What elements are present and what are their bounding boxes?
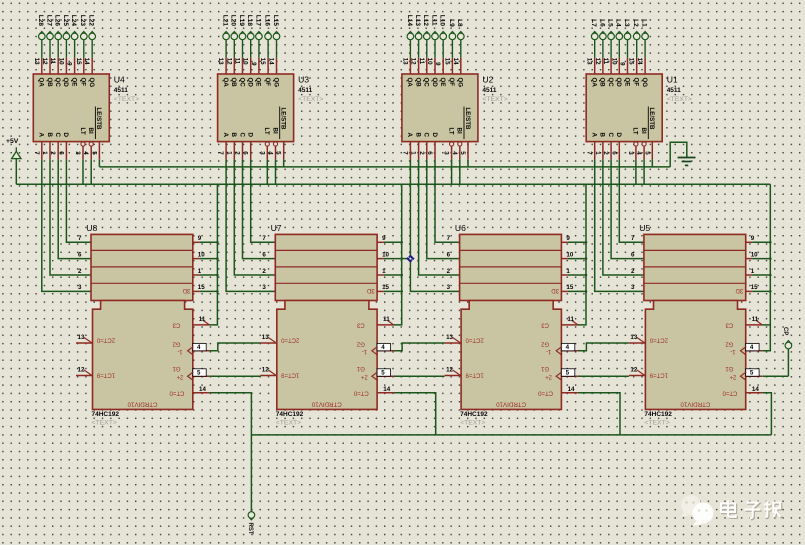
svg-text:5: 5	[643, 151, 650, 155]
svg-text:9: 9	[434, 62, 441, 66]
svg-text:CT=0: CT=0	[353, 389, 369, 395]
U6 pin 4 (DN)	[556, 343, 578, 355]
svg-text:1CT=9: 1CT=9	[649, 371, 668, 377]
svg-text:C3: C3	[172, 321, 180, 327]
svg-text:4511: 4511	[667, 87, 681, 94]
svg-text:CT=0: CT=0	[169, 389, 185, 395]
svg-text:14: 14	[568, 386, 575, 393]
U5 pin 5 (UP)	[741, 369, 763, 381]
U1 bottom pin stubs (A B C D LT BI LE, pins 7 1 2 6 3 4 5)	[586, 142, 653, 160]
svg-text:QD: QD	[615, 78, 622, 88]
U1 top pin stubs (QA..QG, pins 13 12 11 10 9 15 14)	[586, 58, 645, 74]
svg-text:3D: 3D	[182, 287, 190, 293]
U8 pin 12 (TCu input)	[76, 367, 93, 376]
wire U8 pin14 to reset rail	[209, 393, 251, 435]
svg-text:D: D	[431, 133, 438, 138]
U4 bottom pin stubs (A B C D LT BI LE, pins 7 1 2 6 3 4 5)	[33, 142, 100, 160]
wire U3.B to U7 pin2	[234, 159, 275, 275]
svg-text:6: 6	[631, 251, 635, 258]
svg-text:9: 9	[566, 235, 570, 242]
wire U4.B to U8 pin2	[50, 159, 91, 275]
svg-text:15: 15	[751, 284, 758, 291]
svg-text:L18: L18	[246, 15, 253, 27]
svg-text:12: 12	[446, 367, 453, 374]
wire U4.LT to +5V rail	[82, 159, 84, 184]
svg-text:11: 11	[49, 58, 56, 65]
svg-text:L4: L4	[615, 19, 622, 27]
svg-text:2+: 2+	[729, 373, 736, 379]
svg-text:BI: BI	[271, 128, 278, 134]
svg-text:QD: QD	[247, 78, 254, 88]
svg-text:3: 3	[447, 284, 451, 291]
svg-text:QB: QB	[46, 78, 53, 88]
U5 pin 13 (TCd input)	[629, 334, 646, 343]
U2 input terminals with net labels	[406, 15, 464, 58]
wire U1.LE to LE rail	[651, 159, 653, 167]
svg-text:1-: 1-	[177, 348, 182, 354]
svg-text:BI: BI	[456, 128, 463, 134]
svg-text:11: 11	[418, 58, 425, 65]
svg-text:QC: QC	[238, 78, 245, 88]
svg-text:L22: L22	[88, 15, 95, 27]
svg-text:L6: L6	[598, 19, 605, 27]
U6 pin 14 (MR)	[561, 386, 578, 393]
svg-text:1: 1	[410, 151, 417, 155]
U6 pin 12 (TCu input)	[445, 367, 462, 376]
svg-text:QG: QG	[272, 78, 279, 88]
svg-text:74HC192: 74HC192	[644, 411, 672, 418]
wire U1.D to U5 pin7	[619, 159, 644, 242]
U8 pin 5 (UP)	[188, 369, 210, 381]
svg-text:QG: QG	[457, 78, 464, 88]
svg-text:L2: L2	[632, 19, 639, 27]
svg-text:10: 10	[242, 58, 249, 65]
wire U1.B to U5 pin2	[603, 159, 644, 275]
svg-text:3: 3	[631, 284, 635, 291]
svg-text:QG: QG	[641, 78, 648, 88]
svg-text:2: 2	[78, 268, 82, 275]
svg-text:LE/STB: LE/STB	[464, 108, 471, 131]
svg-text:3D: 3D	[551, 287, 559, 293]
svg-text:14: 14	[268, 58, 275, 65]
svg-text:2CT=0: 2CT=0	[649, 336, 668, 342]
svg-text:3: 3	[74, 151, 81, 155]
svg-text:QB: QB	[599, 78, 606, 88]
svg-text:1: 1	[566, 268, 570, 275]
wire U6 pin5 to U5 pin12	[578, 375, 629, 377]
svg-text:12: 12	[225, 58, 232, 65]
U6 right pins 9 10 1 15 wired to preset riser	[561, 235, 587, 293]
svg-text:LE/STB: LE/STB	[648, 108, 655, 131]
svg-text:A: A	[38, 133, 45, 138]
svg-text:CTRDIV10: CTRDIV10	[680, 400, 710, 407]
svg-text:QE: QE	[70, 78, 77, 87]
svg-text:QC: QC	[54, 78, 61, 88]
svg-text:9: 9	[382, 235, 386, 242]
U3 input terminals with net labels	[222, 15, 280, 58]
U7 pin 12 (TCu input)	[260, 367, 277, 376]
svg-text:B: B	[599, 133, 606, 138]
svg-text:CTRDIV10: CTRDIV10	[127, 400, 157, 407]
svg-text:1: 1	[751, 268, 755, 275]
svg-text:C3: C3	[541, 321, 549, 327]
svg-text:3: 3	[443, 151, 450, 155]
svg-text:6: 6	[426, 151, 433, 155]
svg-text:<TEXT>: <TEXT>	[298, 96, 323, 103]
U6 pin 5 (UP)	[556, 369, 578, 381]
wire U7 pin14 to reset rail	[394, 393, 436, 435]
svg-text:11: 11	[602, 58, 609, 65]
U6 pin 13 (TCd input)	[445, 334, 462, 343]
svg-text:2: 2	[49, 151, 56, 155]
svg-text:LT: LT	[632, 128, 639, 135]
svg-text:A: A	[406, 133, 413, 138]
LE/STB rail	[99, 166, 670, 168]
svg-text:CP: CP	[782, 327, 788, 335]
U7 pin 11 (PL)	[377, 316, 394, 325]
wire U2.B to U6 pin2	[419, 159, 460, 275]
U7 pin 13 (TCd input)	[260, 334, 277, 343]
U5 pin 4 (DN)	[741, 343, 763, 355]
svg-text:1: 1	[198, 268, 202, 275]
svg-text:QA: QA	[222, 78, 229, 88]
U1 input terminals with net labels	[590, 19, 648, 58]
svg-text:14: 14	[636, 58, 643, 65]
svg-text:<TEXT>: <TEXT>	[114, 96, 139, 103]
watermark text (drawn glyphs: dian zi bao)	[722, 502, 782, 520]
IC U1 (4511 BCD to 7-seg decoder)	[586, 74, 692, 142]
svg-text:CT=0: CT=0	[538, 389, 554, 395]
svg-text:11: 11	[383, 316, 390, 323]
svg-text:10: 10	[57, 58, 64, 65]
svg-text:4: 4	[566, 344, 570, 351]
wire U8 pin5 to U7 pin12	[209, 375, 260, 377]
svg-text:2CT=0: 2CT=0	[281, 336, 300, 342]
svg-text:7: 7	[262, 235, 266, 242]
svg-text:2: 2	[447, 268, 451, 275]
U8 pin 4 (DN)	[188, 343, 210, 355]
svg-text:LT: LT	[447, 128, 454, 135]
svg-text:RST: RST	[247, 523, 253, 535]
svg-text:10: 10	[426, 58, 433, 65]
U8 pin 13 (TCd input)	[76, 334, 93, 343]
svg-text:15: 15	[382, 284, 389, 291]
svg-text:U5: U5	[639, 223, 650, 233]
wire U3.LT to +5V rail	[266, 159, 268, 184]
svg-text:3: 3	[78, 284, 82, 291]
wire U2.LE to LE rail	[467, 159, 469, 167]
junction node (blue marker)	[402, 258, 411, 260]
svg-text:L7: L7	[590, 19, 597, 27]
svg-text:12: 12	[410, 58, 417, 65]
wire U2.A to U6 pin3	[410, 159, 459, 291]
svg-text:QD: QD	[431, 78, 438, 88]
power +5V symbol	[6, 138, 21, 184]
wire U3.D to U7 pin7	[251, 159, 276, 242]
svg-text:C: C	[238, 133, 245, 138]
svg-text:QE: QE	[439, 78, 446, 87]
svg-text:QB: QB	[230, 78, 237, 88]
svg-text:7: 7	[401, 151, 408, 155]
svg-text:U1: U1	[667, 75, 678, 85]
svg-text:9: 9	[619, 62, 626, 66]
svg-text:L21: L21	[222, 15, 229, 27]
svg-text:CTRDIV10: CTRDIV10	[496, 400, 526, 407]
svg-text:QF: QF	[264, 78, 271, 87]
U4 input terminals with net labels	[37, 15, 95, 58]
svg-text:14: 14	[452, 58, 459, 65]
svg-text:D: D	[62, 133, 69, 138]
svg-text:1: 1	[225, 151, 232, 155]
svg-text:D: D	[247, 133, 254, 138]
svg-text:15: 15	[75, 58, 82, 65]
IC U6 (74HC192 counter)	[455, 223, 562, 427]
wire U1.BI to +5V rail	[643, 159, 645, 184]
svg-text:3: 3	[258, 151, 265, 155]
svg-text:6: 6	[610, 151, 617, 155]
wire U3.C to U7 pin6	[243, 159, 276, 258]
svg-text:C3: C3	[356, 321, 364, 327]
svg-text:L1: L1	[641, 19, 648, 27]
svg-text:L3: L3	[623, 19, 630, 27]
svg-text:2: 2	[234, 151, 241, 155]
svg-text:4511: 4511	[298, 87, 312, 94]
svg-text:2: 2	[418, 151, 425, 155]
svg-text:L11: L11	[430, 15, 437, 26]
svg-text:15: 15	[198, 284, 205, 291]
U3 bottom pin stubs (A B C D LT BI LE, pins 7 1 2 6 3 4 5)	[217, 142, 284, 160]
svg-text:5: 5	[750, 370, 754, 377]
svg-text:2CT=0: 2CT=0	[465, 336, 484, 342]
svg-text:13: 13	[630, 334, 637, 341]
svg-text:7: 7	[447, 235, 451, 242]
svg-text:A: A	[591, 133, 598, 138]
svg-text:1CT=9: 1CT=9	[465, 371, 484, 377]
svg-text:11: 11	[752, 316, 759, 323]
svg-text:14: 14	[752, 386, 759, 393]
svg-text:L24: L24	[70, 15, 77, 27]
svg-text:L10: L10	[439, 15, 446, 27]
svg-text:12: 12	[41, 58, 48, 65]
svg-text:1: 1	[382, 268, 386, 275]
svg-text:2: 2	[262, 268, 266, 275]
svg-text:2CT=0: 2CT=0	[96, 336, 115, 342]
wire LE rail to ground	[670, 142, 687, 167]
svg-text:5: 5	[459, 151, 466, 155]
svg-text:9: 9	[198, 235, 202, 242]
svg-text:C: C	[423, 133, 430, 138]
svg-text:1-: 1-	[362, 348, 367, 354]
svg-text:12: 12	[78, 367, 85, 374]
svg-text:A: A	[222, 133, 229, 138]
U2 bottom pin stubs (A B C D LT BI LE, pins 7 1 2 6 3 4 5)	[401, 142, 468, 160]
svg-text:13: 13	[217, 58, 224, 65]
svg-text:12: 12	[594, 58, 601, 65]
svg-text:1-: 1-	[730, 348, 735, 354]
U6 left pin numbers 7 6 2 3	[447, 235, 451, 291]
svg-text:L28: L28	[37, 15, 44, 27]
IC U8 (74HC192 counter)	[86, 223, 193, 427]
svg-text:QC: QC	[423, 78, 430, 88]
svg-text:QC: QC	[607, 78, 614, 88]
svg-text:B: B	[414, 133, 421, 138]
svg-text:QA: QA	[591, 78, 598, 88]
svg-text:QE: QE	[623, 78, 630, 87]
IC U3 (4511 BCD to 7-seg decoder)	[218, 74, 324, 142]
svg-text:13: 13	[446, 334, 453, 341]
svg-text:G1: G1	[725, 365, 734, 371]
U7 left pin numbers 7 6 2 3	[262, 235, 266, 291]
svg-text:+5V: +5V	[6, 138, 19, 145]
svg-text:12: 12	[262, 367, 269, 374]
watermark logo	[681, 495, 714, 526]
svg-text:4: 4	[197, 344, 201, 351]
wire U4.A to U8 pin3	[42, 159, 91, 291]
svg-text:L17: L17	[254, 15, 261, 27]
svg-text:<TEXT>: <TEXT>	[460, 420, 485, 427]
svg-text:2+: 2+	[176, 373, 183, 379]
svg-text:13: 13	[78, 334, 85, 341]
wire U6 pin14 to reset rail	[578, 393, 620, 435]
svg-text:1: 1	[41, 151, 48, 155]
wire U6 pin4 to U5 pin13	[578, 343, 629, 351]
svg-text:U6: U6	[455, 223, 466, 233]
wire U5 pin 11 tap	[762, 324, 770, 326]
svg-text:5: 5	[197, 370, 201, 377]
svg-text:13: 13	[262, 334, 269, 341]
svg-text:QF: QF	[80, 78, 87, 87]
svg-text:4: 4	[635, 151, 642, 155]
wire U7 preset riser to +5V rail	[394, 184, 402, 325]
svg-text:6: 6	[262, 251, 266, 258]
+5V rail	[16, 183, 770, 185]
wire U4.C to U8 pin6	[58, 159, 91, 258]
svg-text:C: C	[54, 133, 61, 138]
U5 pin 12 (TCu input)	[629, 367, 646, 376]
svg-text:15: 15	[443, 58, 450, 65]
svg-text:4511: 4511	[114, 87, 128, 94]
svg-text:4: 4	[267, 151, 274, 155]
svg-text:4511: 4511	[482, 87, 496, 94]
svg-text:L25: L25	[62, 15, 69, 27]
svg-text:G2: G2	[725, 340, 734, 346]
svg-text:1-: 1-	[546, 348, 551, 354]
svg-text:L23: L23	[79, 15, 86, 27]
svg-text:C3: C3	[725, 321, 733, 327]
svg-text:2+: 2+	[360, 373, 367, 379]
svg-text:C: C	[607, 133, 614, 138]
svg-text:10: 10	[566, 251, 573, 258]
svg-text:9: 9	[751, 235, 755, 242]
svg-text:12: 12	[630, 367, 637, 374]
svg-text:15: 15	[259, 58, 266, 65]
svg-text:U8: U8	[86, 223, 97, 233]
svg-text:L16: L16	[264, 15, 271, 27]
wire U2.LT to +5V rail	[451, 159, 453, 184]
svg-text:G1: G1	[172, 365, 181, 371]
svg-text:L14: L14	[406, 15, 413, 27]
wire U2.D to U6 pin7	[435, 159, 460, 242]
U7 pin 4 (DN)	[372, 343, 394, 355]
wire U8 pin4 to U7 pin13	[209, 343, 260, 351]
U7 pin 14 (MR)	[377, 386, 394, 393]
IC U2 (4511 BCD to 7-seg decoder)	[402, 74, 508, 142]
U5 pin 14 (MR)	[746, 386, 763, 393]
svg-text:L26: L26	[54, 15, 61, 27]
svg-text:QA: QA	[38, 78, 45, 88]
svg-text:<TEXT>: <TEXT>	[276, 420, 301, 427]
wire U3.A to U7 pin3	[226, 159, 275, 291]
wire U2.BI to +5V rail	[459, 159, 461, 184]
svg-text:QB: QB	[414, 78, 421, 88]
svg-text:LT: LT	[79, 128, 86, 135]
svg-text:QE: QE	[255, 78, 262, 87]
U5 left pin numbers 7 6 2 3	[631, 235, 635, 291]
svg-text:<TEXT>: <TEXT>	[667, 96, 692, 103]
svg-text:G2: G2	[172, 340, 181, 346]
svg-text:4: 4	[381, 344, 385, 351]
svg-text:QF: QF	[633, 78, 640, 87]
wire U8 preset riser to +5V rail	[209, 184, 217, 325]
svg-text:6: 6	[78, 251, 82, 258]
wire U1.A to U5 pin3	[595, 159, 644, 291]
svg-text:U7: U7	[271, 223, 282, 233]
svg-text:7: 7	[586, 151, 593, 155]
svg-text:L12: L12	[422, 15, 429, 27]
IC U7 (74HC192 counter)	[271, 223, 378, 427]
svg-text:L20: L20	[230, 15, 237, 27]
wire reset rail to RST terminal	[250, 435, 252, 512]
svg-text:14: 14	[199, 386, 206, 393]
svg-text:LE/STB: LE/STB	[95, 108, 102, 131]
svg-text:6: 6	[242, 151, 249, 155]
svg-text:14: 14	[83, 58, 90, 65]
svg-text:U4: U4	[114, 75, 125, 85]
svg-text:G2: G2	[356, 340, 365, 346]
svg-text:CT=0: CT=0	[722, 389, 738, 395]
svg-text:G1: G1	[356, 365, 365, 371]
terminal RST	[247, 512, 255, 535]
svg-text:2: 2	[602, 151, 609, 155]
svg-text:<TEXT>: <TEXT>	[644, 420, 669, 427]
svg-text:7: 7	[217, 151, 224, 155]
svg-text:15: 15	[566, 284, 573, 291]
svg-text:U2: U2	[482, 75, 493, 85]
wire U2.C to U6 pin6	[427, 159, 460, 258]
U7 pin 5 (UP)	[372, 369, 394, 381]
svg-text:9: 9	[250, 62, 257, 66]
svg-text:3D: 3D	[735, 287, 743, 293]
svg-text:11: 11	[567, 316, 574, 323]
svg-text:L5: L5	[607, 19, 614, 27]
wire U4.BI to +5V rail	[90, 159, 92, 184]
svg-text:<TEXT>: <TEXT>	[92, 420, 117, 427]
svg-text:QG: QG	[88, 78, 95, 88]
svg-text:B: B	[230, 133, 237, 138]
wire U4.D to U8 pin7	[66, 159, 91, 242]
svg-text:74HC192: 74HC192	[460, 411, 488, 418]
U8 pin 14 (MR)	[193, 386, 210, 393]
svg-text:L19: L19	[238, 15, 245, 27]
svg-text:7: 7	[631, 235, 635, 242]
svg-text:5: 5	[275, 151, 282, 155]
svg-text:L9: L9	[448, 19, 455, 27]
svg-text:L13: L13	[414, 15, 421, 27]
svg-text:QA: QA	[406, 78, 413, 88]
svg-text:D: D	[615, 133, 622, 138]
svg-text:CTRDIV10: CTRDIV10	[311, 400, 341, 407]
svg-text:6: 6	[57, 151, 64, 155]
